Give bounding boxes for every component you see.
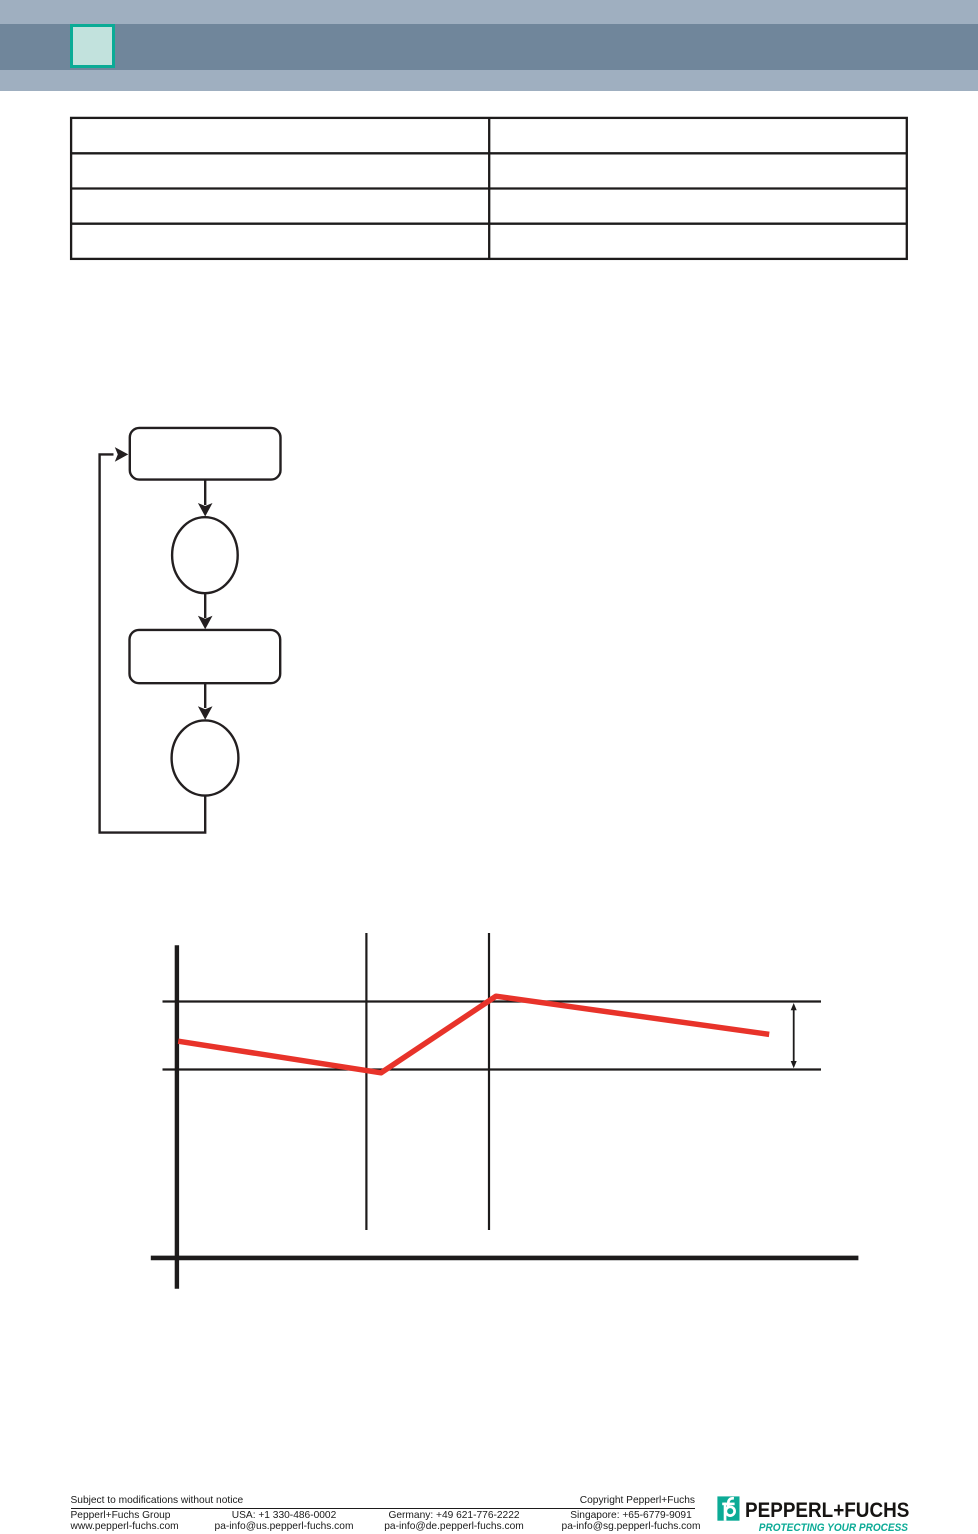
header dark band [0, 24, 978, 70]
logo white f crossbar [722, 1503, 734, 1506]
table row line 3 [70, 223, 907, 225]
graph y-axis [175, 945, 179, 1289]
footer col2 [184, 1511, 384, 1532]
dimension arrowhead down [791, 1061, 797, 1068]
graph thin vertical line 1 [365, 933, 367, 1230]
footer subject note [71, 1496, 244, 1507]
feedback wire loop [100, 454, 206, 832]
wire arrow box1 to ellipse1 [204, 480, 206, 505]
header light band bottom [0, 70, 978, 91]
arrowhead of feedback loop into box1 [115, 447, 129, 462]
wire arrow ellipse1 to box2 [204, 593, 206, 618]
dimension double arrow shaft [793, 1007, 795, 1064]
logo white f curl and stem [728, 1498, 734, 1507]
arrowhead into ellipse1 [198, 503, 213, 517]
graph thin vertical line 2 [488, 933, 490, 1230]
logo square with fp glyph [712, 1490, 978, 1533]
header teal chapter square [70, 24, 115, 68]
arrowhead into box2 [198, 616, 213, 630]
graph lower threshold line [163, 1068, 822, 1070]
dimension arrowhead up [791, 1003, 797, 1010]
table row line 2 [70, 187, 907, 189]
table column divider [488, 118, 490, 259]
footer col4 [531, 1511, 731, 1532]
logo white p stem [724, 1503, 727, 1521]
wire arrow box2 to ellipse2 [204, 683, 206, 708]
red signal curve [178, 996, 769, 1073]
logo teal square [717, 1496, 739, 1520]
flowchart rounded box 1 [130, 428, 281, 480]
logo white p bowl [726, 1507, 735, 1516]
footer copyright [495, 1496, 695, 1507]
header light band top [0, 0, 978, 24]
table row line 1 [70, 152, 907, 154]
footer col1 [71, 1511, 179, 1532]
arrowhead into ellipse2 [198, 706, 213, 720]
graph x-axis [151, 1256, 859, 1261]
logo tagline [718, 1523, 907, 1534]
logo wordmark [745, 1499, 909, 1521]
footer rule [71, 1508, 696, 1510]
flowchart ellipse 2 [172, 720, 239, 795]
footer col3 [354, 1511, 554, 1532]
flowchart rounded box 2 [130, 630, 281, 683]
flowchart ellipse 1 [172, 517, 238, 593]
graph upper threshold line [163, 1000, 822, 1002]
table outer frame [71, 118, 907, 259]
